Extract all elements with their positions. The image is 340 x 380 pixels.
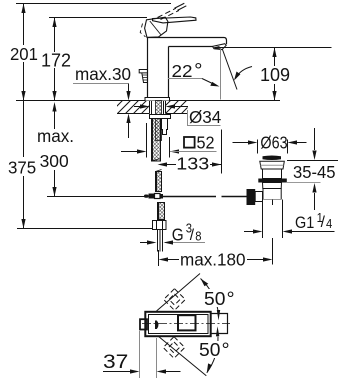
svg-text:Ø34: Ø34 <box>189 107 222 128</box>
G3/8 tube <box>158 230 163 252</box>
109 top reference line <box>219 47 332 49</box>
22deg leader underline <box>168 78 202 80</box>
22deg leader arrow <box>202 79 213 84</box>
dimension line 172 <box>54 18 56 101</box>
svg-text:375: 375 <box>8 157 36 178</box>
svg-text:G1: G1 <box>295 214 314 232</box>
waste flange <box>260 161 285 169</box>
svg-text:50°: 50° <box>199 340 230 361</box>
G3/8 arrows <box>140 242 149 244</box>
hose left edge emphasis <box>152 119 158 220</box>
lever raised (dashed) <box>158 8 177 17</box>
waste plug cap <box>263 155 282 160</box>
mounting washer <box>150 115 171 119</box>
dimension line 201/375 <box>23 4 25 229</box>
faucet body + spout <box>148 38 227 98</box>
sq52 arrows <box>121 151 137 153</box>
arrow max300 bottom <box>52 187 56 197</box>
svg-text:/: / <box>321 214 326 231</box>
svg-text:52: 52 <box>197 133 215 153</box>
waste knurled knob <box>247 189 256 205</box>
deck bottom line + hole edges <box>117 101 188 114</box>
svg-text:300: 300 <box>40 151 69 171</box>
G1 1/4 leader + arrows <box>244 231 335 233</box>
handle cartridge base <box>145 17 168 37</box>
sq52 extension lines <box>147 123 170 158</box>
22deg arc arrow <box>236 67 253 79</box>
deck top line <box>16 100 280 102</box>
dim 37 arrows <box>103 371 131 373</box>
svg-text:35-45: 35-45 <box>293 163 335 182</box>
35-45 dimension line <box>314 128 316 210</box>
shank tubes in hole <box>152 101 164 115</box>
lever blade <box>153 17 197 23</box>
arrow 172 bottom <box>52 91 56 101</box>
dim 133 extension line <box>221 130 223 174</box>
mounting nut bracket <box>162 119 168 135</box>
hose segment 3 <box>158 203 165 220</box>
max.30 leader underline <box>73 83 129 85</box>
arrow 172 top <box>52 18 56 28</box>
base plate <box>145 98 170 101</box>
label 50 upper backdrop <box>200 289 228 307</box>
svg-text:109: 109 <box>260 65 290 85</box>
svg-text:/: / <box>190 227 195 244</box>
G3/8 leader underline <box>165 242 205 244</box>
svg-text:Ø63: Ø63 <box>260 133 287 153</box>
top view inner body <box>149 315 209 334</box>
spout tube <box>212 314 228 334</box>
rod junction clamp <box>144 195 149 198</box>
G3/8 nut <box>153 221 167 230</box>
dim 37 extension lines (gray) <box>140 331 157 378</box>
rod right sections <box>163 196 247 198</box>
35-45 reference lines <box>287 160 338 162</box>
hose segment 1 <box>152 119 161 162</box>
arrow 375 bottom <box>21 219 25 229</box>
upper 50 arc <box>201 279 219 312</box>
dashed diamond upper <box>164 289 186 311</box>
arrow 201 bottom <box>21 91 25 101</box>
pull rod knob <box>139 70 147 73</box>
max180 arrows <box>168 259 179 261</box>
aerator square <box>178 315 196 330</box>
svg-text:max.30: max.30 <box>75 64 131 85</box>
svg-text:201: 201 <box>10 44 38 65</box>
Ø34 label box <box>188 110 221 126</box>
hose segment 2 <box>156 172 162 192</box>
aerator tip <box>213 44 227 50</box>
375 bottom reference line <box>17 228 152 230</box>
svg-text:172: 172 <box>41 50 71 70</box>
D mark <box>155 321 159 330</box>
22deg vertical reference (gray) <box>220 49 222 100</box>
slant line lower <box>158 336 206 376</box>
handle tab <box>140 319 147 329</box>
rod reference line (left) <box>47 196 145 198</box>
22deg slanted stream line <box>222 49 237 90</box>
svg-text:8: 8 <box>195 229 202 244</box>
svg-text:37: 37 <box>103 352 128 373</box>
waste upper body <box>263 169 282 179</box>
arrow 201 top <box>21 4 25 14</box>
svg-text:133: 133 <box>176 154 209 174</box>
Ø63 arrows/extensions <box>233 140 307 154</box>
hose break marks <box>152 159 162 172</box>
centerline <box>142 323 230 325</box>
threaded shank (crosshatch) <box>156 101 162 141</box>
waste tailpipe <box>263 200 283 239</box>
dashed diamond lower <box>163 337 185 359</box>
dim 133 arrows <box>167 164 176 166</box>
dimension line 109 <box>274 48 276 101</box>
max.30 leader & arrows <box>128 84 130 139</box>
svg-text:4: 4 <box>326 216 333 231</box>
svg-text:G: G <box>172 224 184 244</box>
lower 50 arc <box>207 337 218 373</box>
square symbol <box>184 137 195 148</box>
svg-text:max.: max. <box>37 126 74 147</box>
top view body <box>145 312 210 336</box>
deck hatching <box>106 98 213 117</box>
datum line lever rest (172 top) <box>49 17 147 19</box>
waste O-ring <box>258 179 287 183</box>
dimension line max300 <box>54 104 56 197</box>
label 50 lower backdrop <box>197 341 225 358</box>
svg-text:max.180: max.180 <box>180 249 246 270</box>
Ø34 arrows <box>134 106 141 108</box>
max180 extension lines <box>159 238 273 266</box>
arrow max300 top <box>52 102 56 112</box>
waste lower body <box>263 183 282 189</box>
svg-text:50°: 50° <box>204 288 235 309</box>
datum line lever raised (201/375 top) <box>16 3 171 5</box>
slant line upper <box>157 274 201 312</box>
